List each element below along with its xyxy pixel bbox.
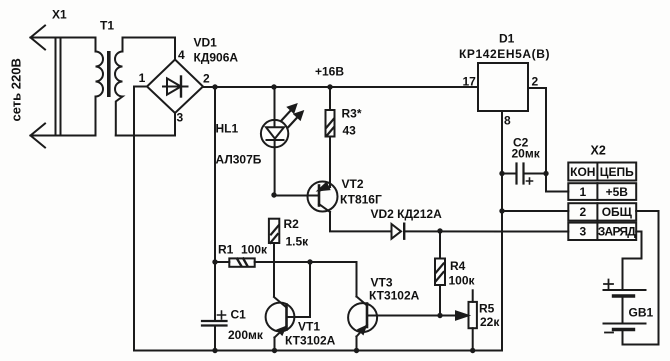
svg-text:VT2: VT2: [342, 177, 364, 191]
svg-text:C1: C1: [231, 308, 247, 322]
svg-text:200мк: 200мк: [228, 328, 264, 342]
svg-text:+5В: +5В: [606, 185, 629, 199]
svg-text:VD2 КД212А: VD2 КД212А: [371, 207, 443, 221]
svg-text:1: 1: [579, 185, 586, 199]
svg-text:КД906А: КД906А: [194, 50, 239, 64]
node junction LED tap: [271, 84, 276, 89]
node junction R1/C1: [212, 259, 217, 264]
wire mains top: [31, 37, 96, 39]
wire D1 pin2 to X2 row1: [528, 88, 568, 192]
svg-text:T1: T1: [100, 19, 114, 33]
svg-text:КТ3102А: КТ3102А: [369, 289, 420, 303]
svg-text:HL1: HL1: [216, 122, 239, 136]
transformer T1: [96, 38, 123, 136]
svg-text:43: 43: [343, 124, 357, 138]
node junction row2 tap: [499, 208, 504, 213]
node junction R3 tap: [327, 84, 332, 89]
svg-text:4: 4: [178, 48, 185, 62]
wire VT2 collector to VD2: [330, 212, 392, 231]
wire D1 pin8 down to rail: [501, 111, 503, 351]
svg-text:ЦЕПЬ: ЦЕПЬ: [600, 165, 634, 179]
svg-text:2: 2: [203, 72, 210, 86]
svg-text:1: 1: [139, 71, 146, 85]
svg-text:VT3: VT3: [371, 276, 393, 290]
transistor VT2: [308, 182, 338, 213]
svg-text:3: 3: [177, 111, 184, 125]
node junction R4 bottom: [437, 313, 442, 318]
connector X1: [31, 26, 61, 148]
svg-text:D1: D1: [499, 32, 515, 46]
svg-text:ОБЩ: ОБЩ: [602, 205, 633, 219]
node junction VT1 base tap: [307, 259, 312, 264]
resistor R3: [326, 87, 335, 187]
svg-text:100к: 100к: [449, 274, 476, 288]
svg-text:8: 8: [504, 114, 511, 128]
transistor VT3: [348, 297, 456, 351]
wire VD2 to X2 row3: [404, 230, 568, 232]
node junction R5 bottom on rail: [470, 348, 475, 353]
svg-text:R5: R5: [479, 302, 495, 316]
capacitor C1: [202, 262, 227, 351]
diode VD2: [392, 224, 405, 239]
wire X2 row3 to battery plus: [623, 232, 642, 291]
wire common to X2 row2: [502, 210, 568, 212]
svg-text:X2: X2: [591, 144, 606, 158]
svg-text:R2: R2: [284, 217, 300, 231]
svg-text:R4: R4: [450, 259, 466, 273]
svg-text:VT1: VT1: [298, 320, 320, 334]
svg-text:КТ3102А: КТ3102А: [285, 334, 336, 348]
node junction on +16V at x215: [212, 84, 217, 89]
node junction C2 right: [543, 171, 548, 176]
node junction C2 left: [499, 171, 504, 176]
node junction R4 top: [437, 228, 442, 233]
wire ground rail: [134, 350, 502, 352]
wire VT3 collector up to R1 wire: [356, 262, 358, 297]
wire bridge pin1 down to ground rail: [134, 87, 147, 351]
svg-text:100к: 100к: [241, 243, 268, 257]
potentiometer R5: [456, 290, 477, 350]
svg-text:+16В: +16В: [315, 65, 344, 79]
svg-text:КТ816Г: КТ816Г: [340, 193, 382, 207]
bridge rectifier VD1: [147, 60, 203, 114]
node junction VT1 emitter on rail: [272, 348, 277, 353]
battery GB1: [604, 280, 646, 345]
wire secondary bottom to bridge: [116, 113, 175, 136]
svg-text:22к: 22к: [480, 315, 500, 329]
voltage regulator D1: [478, 63, 528, 111]
svg-text:20мк: 20мк: [512, 147, 541, 161]
svg-text:GB1: GB1: [629, 306, 654, 320]
svg-text:2: 2: [532, 75, 539, 89]
svg-text:R1: R1: [218, 243, 234, 257]
svg-text:ЗАРЯД: ЗАРЯД: [598, 225, 636, 239]
wire mains bottom: [31, 135, 96, 137]
node junction LED/R2/VT2: [271, 192, 276, 197]
wire +16V bus: [203, 86, 478, 88]
wire +16V down to R1/C1 junction: [214, 87, 216, 262]
resistor R4: [435, 231, 445, 316]
wire VT2 base from LED node: [274, 195, 319, 197]
transistor VT1: [266, 297, 310, 351]
node junction C1 on rail: [212, 348, 217, 353]
wire VT1 base up to R1 wire: [309, 262, 311, 317]
svg-text:АЛ307Б: АЛ307Б: [216, 153, 262, 167]
svg-text:сеть 220В: сеть 220В: [9, 58, 24, 121]
connector X2: [568, 163, 636, 241]
LED HL1: [261, 87, 303, 195]
svg-text:3: 3: [579, 225, 586, 239]
resistor R2: [269, 219, 279, 297]
wire secondary top to bridge: [123, 38, 176, 60]
capacitor C2: [502, 164, 546, 185]
svg-text:2: 2: [579, 205, 586, 219]
resistor R1: [215, 258, 357, 266]
node junction VT3 emitter on rail: [354, 348, 359, 353]
svg-text:КР142ЕН5А(В): КР142ЕН5А(В): [459, 47, 550, 61]
svg-text:VD1: VD1: [194, 36, 218, 50]
wire X2 row2 to battery minus: [623, 211, 659, 345]
svg-text:17: 17: [463, 75, 477, 89]
svg-text:R3*: R3*: [342, 107, 362, 121]
svg-text:КОН: КОН: [570, 165, 595, 179]
svg-text:X1: X1: [52, 8, 67, 22]
svg-text:1.5к: 1.5к: [286, 235, 310, 249]
